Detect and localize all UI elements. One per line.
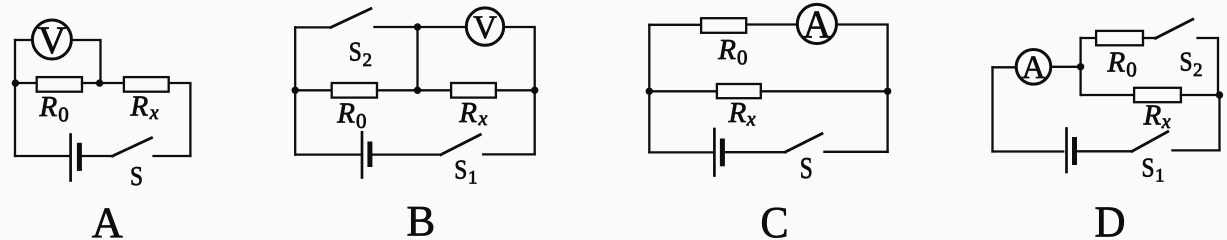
- svg-text:V: V: [38, 19, 66, 62]
- wire: D battery to switch S1: [1076, 150, 1133, 152]
- wire: C left vertical: [648, 25, 650, 152]
- node: D left junction: [1077, 63, 1084, 70]
- wire: C mid-left segment: [649, 90, 717, 92]
- switch S2 (circuit B) lever: [331, 9, 371, 28]
- wire: D bottom branch left segment: [1081, 94, 1135, 96]
- wire: A bottom-left to battery: [15, 155, 69, 157]
- wire: B Rx right to right vertical: [496, 89, 535, 91]
- resistor Rx (circuit A): [124, 77, 169, 92]
- wire: D right vertical: [1218, 95, 1220, 150]
- wire: D R0 to switch S2: [1143, 37, 1156, 39]
- wire: C ammeter right to corner, down right side: [837, 25, 888, 153]
- svg-text:V: V: [473, 10, 497, 46]
- wire: B center vertical (top node to mid node): [416, 27, 418, 90]
- wire: B bottom-left to battery: [295, 153, 361, 155]
- wire: B top-left to switch S2: [295, 26, 331, 28]
- battery (circuit A) short plate: [77, 145, 82, 168]
- node: C mid-left junction: [646, 88, 653, 95]
- battery (circuit C) short plate: [720, 141, 725, 164]
- wire: A battery to switch: [82, 155, 113, 157]
- svg-text:2: 2: [363, 50, 373, 71]
- wire: B mid-left segment: [295, 89, 332, 91]
- wire: D ammeter right to node: [1051, 66, 1081, 68]
- node: A left junction: [12, 79, 19, 86]
- wire: A left vertical: [14, 40, 16, 156]
- svg-text:S: S: [349, 36, 362, 66]
- switch S2 (circuit D) lever: [1156, 19, 1193, 38]
- ammeter A (circuit C): [797, 4, 836, 43]
- wire: B left vertical: [294, 27, 296, 154]
- svg-text:B: B: [406, 199, 435, 240]
- wire: C bottom-left to battery: [649, 151, 713, 153]
- wire: D node vertical (top branch to bottom branch): [1079, 38, 1081, 95]
- switch S1 (circuit B) lever: [441, 135, 480, 155]
- battery (circuit B) long plate: [361, 132, 364, 177]
- wire: A mid-left segment: [15, 82, 37, 84]
- node: C mid-right junction: [884, 88, 891, 95]
- switch S1 (circuit D) lever: [1132, 132, 1168, 152]
- resistor R0 (circuit C): [701, 18, 746, 33]
- svg-text:S: S: [1180, 47, 1193, 77]
- wire: C battery to switch: [725, 151, 785, 153]
- battery (circuit C) long plate: [713, 129, 716, 176]
- resistor Rx (circuit D): [1134, 88, 1181, 102]
- node: D right junction: [1216, 91, 1223, 98]
- battery (circuit B) short plate: [367, 144, 372, 165]
- wire: D left vertical: [991, 67, 993, 151]
- wire: A switch contact to right corner: [154, 155, 191, 157]
- node: B mid-center junction: [414, 87, 421, 94]
- wire: C R0 to ammeter: [746, 23, 797, 25]
- battery (circuit A) long plate: [69, 135, 72, 181]
- battery (circuit D) long plate: [1065, 129, 1068, 173]
- resistor R0 (circuit D): [1096, 31, 1143, 45]
- switch S (circuit A) lever: [113, 138, 152, 156]
- wire: D top branch left segment: [1081, 37, 1096, 39]
- wire: C Rx right to right vertical: [761, 90, 888, 92]
- wire: B between R0 and Rx: [377, 89, 451, 91]
- svg-text:A: A: [803, 3, 831, 46]
- wire: D bottom-left to battery: [993, 150, 1064, 152]
- node: B mid-right junction: [531, 87, 538, 94]
- svg-text:1: 1: [1155, 166, 1165, 187]
- wire: A voltmeter right to node: [71, 40, 100, 83]
- node: A mid junction: [96, 79, 103, 86]
- svg-text:D: D: [1095, 198, 1126, 240]
- wire: B S2 contact to top node and voltmeter: [375, 26, 467, 28]
- wire: B voltmeter right to corner, down: [504, 27, 535, 154]
- ammeter A (circuit D): [1016, 50, 1051, 85]
- resistor R0 (circuit A): [37, 77, 82, 92]
- svg-text:1: 1: [468, 168, 478, 189]
- svg-text:2: 2: [1193, 60, 1203, 81]
- wire: D left to ammeter: [993, 66, 1017, 68]
- resistor Rx (circuit B): [451, 83, 496, 98]
- wire: C top-left to R0: [649, 24, 701, 26]
- svg-text:A: A: [1022, 50, 1046, 86]
- resistor Rx (circuit C): [717, 84, 761, 98]
- voltmeter V (circuit A): [32, 20, 71, 59]
- svg-text:S: S: [130, 161, 143, 191]
- wire: A Rx right, down right side: [169, 83, 191, 156]
- svg-text:S: S: [1142, 153, 1155, 183]
- node: B top junction: [414, 23, 421, 30]
- svg-text:C: C: [761, 198, 789, 240]
- wire: D Rx right to node: [1181, 94, 1220, 96]
- wire: A between R0 and Rx: [82, 82, 124, 84]
- wire: B battery to switch S1: [372, 153, 441, 155]
- resistor R0 (circuit B): [332, 83, 377, 98]
- switch S (circuit C) lever: [785, 134, 822, 152]
- battery (circuit D) short plate: [1072, 140, 1077, 163]
- wire: C switch contact to right corner: [824, 151, 887, 153]
- wire: D S1 contact to right corner: [1172, 149, 1219, 151]
- svg-text:S: S: [454, 154, 467, 184]
- wire: B S1 contact to right corner: [483, 153, 535, 155]
- svg-text:S: S: [800, 150, 813, 185]
- node: B mid-left junction: [292, 87, 299, 94]
- voltmeter V (circuit B): [466, 8, 503, 45]
- wire: A top-left to voltmeter: [15, 39, 32, 41]
- svg-text:A: A: [92, 200, 123, 240]
- wire: D S2 contact to right corner, down: [1198, 38, 1219, 95]
